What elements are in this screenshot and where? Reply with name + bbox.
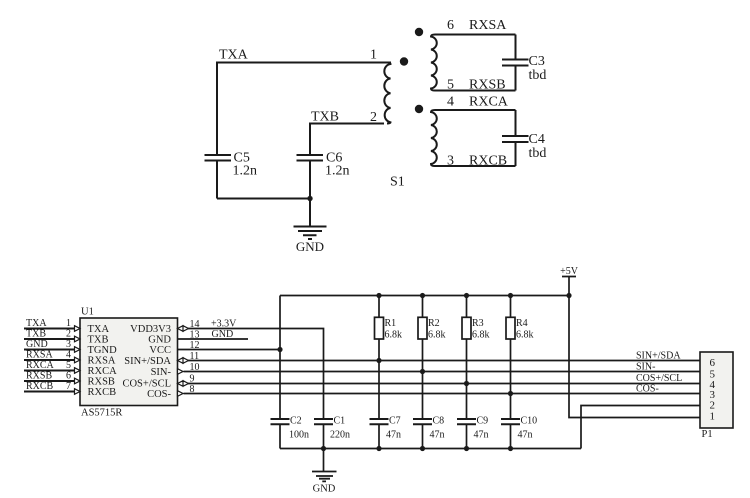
label C7 (389, 416, 401, 427)
junction dot R3/COS+/SCL (464, 381, 469, 386)
svg-text:COS-: COS- (636, 384, 659, 395)
svg-text:1: 1 (370, 48, 377, 63)
value tbd (C4) (529, 146, 547, 161)
value 220n (330, 430, 350, 441)
wire TXA horizontal + vertical to C5 (217, 63, 391, 156)
svg-text:tbd: tbd (529, 68, 547, 83)
resistor R2 vertical wires (422, 296, 424, 420)
svg-text:6.8k: 6.8k (472, 330, 490, 341)
wire GND bottom bus (280, 448, 581, 450)
resistor R3 (462, 317, 471, 339)
svg-text:SIN+/SDA: SIN+/SDA (124, 356, 171, 367)
pin arrow U1 pin 2 (75, 336, 81, 342)
pin number 6 (66, 371, 71, 382)
junction dot R1/SIN+/SDA (376, 358, 381, 363)
junction dot +5V (566, 293, 571, 298)
wire GND symbol stem (bottom) (323, 449, 325, 472)
resistor R4 vertical wires (510, 296, 512, 420)
svg-text:TXA: TXA (88, 324, 110, 335)
transformer S1 secondary winding RXSA/RXSB (431, 35, 516, 91)
pin number 12 (190, 340, 200, 351)
svg-text:C2: C2 (290, 416, 302, 427)
value 6.8k (R1) (385, 330, 403, 341)
value 6.8k (R2) (428, 330, 446, 341)
U1 internal pin name TXA (88, 324, 110, 335)
U1 internal pin name SIN+/SDA (124, 356, 171, 367)
capacitor C2 (271, 419, 290, 424)
net label GND (pin 13) (212, 329, 234, 340)
label C5 (234, 151, 250, 166)
wire COS+/SCL (U1 pin 9 to P1 pin 4) (184, 383, 701, 385)
svg-text:GND: GND (313, 484, 336, 495)
pin arrow U1 pin 11 (bidirectional) (178, 358, 189, 364)
value 100n (289, 430, 309, 441)
wire C2 bottom stem (279, 424, 281, 448)
svg-text:6: 6 (710, 357, 716, 369)
label C2 (290, 416, 302, 427)
svg-text:C10: C10 (521, 416, 538, 427)
node TXA label (219, 48, 249, 63)
pin arrow U1 pin 5 (75, 368, 81, 374)
pin arrow U1 pin 7 (75, 389, 81, 395)
pin arrow U1 pin 4 (75, 357, 81, 363)
wire P1 pin 2 to GND bus (581, 406, 700, 449)
junction dot bottom bus C8 (420, 446, 425, 451)
wire RXCB stub (U1 pin 7) (24, 391, 75, 393)
svg-text:U1: U1 (81, 307, 94, 318)
ground symbol (top section) (294, 227, 327, 240)
pin 6 label (447, 18, 454, 33)
pin number 1 (66, 318, 71, 329)
junction dot R2/SIN- (420, 369, 425, 374)
node TXB label (311, 110, 339, 125)
svg-text:VCC: VCC (149, 345, 171, 356)
svg-text:47n: 47n (386, 430, 401, 441)
svg-text:TGND: TGND (88, 345, 118, 356)
U1 internal pin name GND (148, 335, 171, 346)
label C10 (521, 416, 538, 427)
svg-text:COS-: COS- (147, 389, 171, 400)
pin 3 label (447, 154, 454, 169)
label GND (top section) (296, 239, 324, 254)
capacitor C3 (502, 60, 529, 66)
pin arrow U1 pin 9 (bidirectional) (178, 381, 189, 387)
junction dot top bus R3 (464, 293, 469, 298)
label C3 (529, 54, 545, 69)
wire C8 bottom stem (422, 424, 424, 448)
svg-text:TXB: TXB (26, 329, 46, 340)
value tbd (C3) (529, 68, 547, 83)
capacitor C6 (297, 155, 324, 199)
label R1 (385, 318, 397, 329)
pin arrow U1 pin 1 (75, 326, 81, 332)
svg-text:220n: 220n (330, 430, 350, 441)
wire C2 branch (top bus to C2) (279, 296, 281, 420)
net label SIN- (636, 362, 655, 373)
svg-text:S1: S1 (390, 175, 405, 190)
node RXCB label (469, 154, 507, 169)
label S1 (390, 175, 405, 190)
pin number 5 (66, 360, 71, 371)
pin number 2 (66, 329, 71, 340)
svg-text:TXB: TXB (311, 110, 339, 125)
resistor R4 (506, 317, 515, 339)
wire TXB horizontal + vertical to C6 (310, 124, 384, 156)
node RXCA label (U1 pin 5) (26, 360, 55, 371)
svg-text:6.8k: 6.8k (516, 330, 534, 341)
junction dot bottom bus C9 (464, 446, 469, 451)
svg-text:RXCB: RXCB (469, 154, 507, 169)
pin number 8 (190, 384, 195, 395)
pin arrow U1 pin 8 (178, 391, 184, 397)
svg-text:5: 5 (447, 78, 454, 93)
svg-text:SIN-: SIN- (151, 367, 172, 378)
U1 internal pin name RXCB (88, 387, 117, 398)
svg-text:RXSA: RXSA (88, 356, 116, 367)
wire secondary 2 right side (515, 110, 517, 166)
value 47n (C7) (386, 430, 401, 441)
U1 internal pin name VDD3V3 (130, 324, 171, 335)
pin number 4 (66, 350, 71, 361)
svg-text:GND: GND (26, 339, 48, 350)
junction dot bottom bus C7 (376, 446, 381, 451)
junction dot C6/ground (307, 196, 312, 201)
polarity dot primary (400, 57, 408, 65)
U1 internal pin name TGND (88, 345, 118, 356)
pin 4 label (447, 95, 454, 110)
pin number 13 (190, 330, 200, 341)
pin number 3 (66, 339, 71, 350)
svg-text:4: 4 (66, 350, 71, 361)
U1 internal pin name COS+/SCL (122, 379, 171, 390)
svg-text:3: 3 (447, 154, 454, 169)
capacitor C5 (205, 155, 232, 199)
wire +5V to P1 pin 1 (569, 296, 700, 418)
svg-text:6.8k: 6.8k (428, 330, 446, 341)
U1 internal pin name SIN- (151, 367, 172, 378)
svg-text:COS+/SCL: COS+/SCL (122, 379, 171, 390)
polarity dot secondary 2 (415, 105, 423, 113)
pin number 14 (190, 319, 200, 330)
svg-text:GND: GND (148, 335, 171, 346)
wire TXA stub (U1 pin 1) (24, 328, 75, 330)
resistor R1 vertical wires (378, 296, 380, 420)
pin number 11 (190, 351, 200, 362)
svg-text:R4: R4 (516, 318, 528, 329)
svg-text:1.2n: 1.2n (325, 164, 350, 179)
pin number 2 (P1) (710, 400, 716, 412)
junction dot VCC/C2 (277, 347, 282, 352)
node TXB label (U1 pin 2) (26, 329, 46, 340)
pin 1 label (primary top) (370, 48, 377, 63)
svg-text:47n: 47n (430, 430, 445, 441)
value 1.2n (C5) (233, 164, 258, 179)
node RXCB label (U1 pin 7) (26, 381, 54, 392)
svg-text:SIN-: SIN- (636, 362, 655, 373)
svg-text:C4: C4 (529, 132, 545, 147)
svg-text:C1: C1 (334, 416, 346, 427)
svg-text:RXCA: RXCA (469, 95, 509, 110)
label C4 (529, 132, 545, 147)
label AS5715R (81, 408, 122, 419)
wire SIN- (U1 pin 10 to P1 pin 5) (184, 371, 701, 373)
svg-text:COS+/SCL: COS+/SCL (636, 373, 682, 384)
svg-text:RXSB: RXSB (26, 371, 52, 382)
svg-text:RXCB: RXCB (88, 387, 117, 398)
wire C10 bottom stem (510, 424, 512, 448)
svg-text:47n: 47n (518, 430, 533, 441)
svg-text:R3: R3 (472, 318, 484, 329)
wire +5V top bus (280, 295, 569, 297)
node RXCA label (469, 95, 509, 110)
wire RXSB stub (U1 pin 6) (24, 380, 75, 382)
node GND label (U1 pin 3) (26, 339, 48, 350)
polarity dot secondary 1 (415, 28, 423, 36)
wire SIN+/SDA (U1 pin 11 to P1 pin 6) (184, 360, 701, 362)
svg-text:47n: 47n (474, 430, 489, 441)
U1 internal pin name VCC (149, 345, 171, 356)
value 47n (C8) (430, 430, 445, 441)
svg-text:1: 1 (66, 318, 71, 329)
svg-text:C7: C7 (389, 416, 401, 427)
pin number 10 (190, 362, 200, 373)
pin number 5 (P1) (710, 369, 716, 381)
U1 internal pin name RXSB (88, 377, 115, 388)
svg-text:TXB: TXB (88, 335, 109, 346)
label R3 (472, 318, 484, 329)
pin number 9 (190, 374, 195, 385)
svg-text:GND: GND (296, 239, 324, 254)
junction dot top bus R2 (420, 293, 425, 298)
wire bottom of C5/C6 to ground (217, 199, 310, 227)
svg-text:SIN+/SDA: SIN+/SDA (636, 351, 681, 362)
wire C9 bottom stem (466, 424, 468, 448)
svg-text:100n: 100n (289, 430, 309, 441)
capacitor C8 (413, 419, 432, 424)
U1 internal pin name TXB (88, 335, 109, 346)
label R2 (428, 318, 440, 329)
pin number 6 (P1) (710, 357, 716, 369)
svg-text:6.8k: 6.8k (385, 330, 403, 341)
pin arrow U1 pin 14 (bidirectional) (178, 326, 189, 332)
capacitor C10 (501, 419, 520, 424)
svg-text:VDD3V3: VDD3V3 (130, 324, 171, 335)
svg-text:4: 4 (447, 95, 454, 110)
resistor R3 vertical wires (466, 296, 468, 420)
svg-text:R2: R2 (428, 318, 440, 329)
capacitor C7 (370, 419, 389, 424)
pin arrow U1 pin 6 (75, 378, 81, 384)
capacitor C9 (457, 419, 476, 424)
label C9 (477, 416, 489, 427)
svg-text:2: 2 (66, 329, 71, 340)
label P1 (702, 429, 713, 440)
value 6.8k (R3) (472, 330, 490, 341)
value 1.2n (C6) (325, 164, 350, 179)
svg-text:2: 2 (370, 110, 377, 125)
wire U1 pin 13 GND net (178, 338, 249, 340)
net label COS+/SCL (636, 373, 682, 384)
junction dot R4/COS- (508, 391, 513, 396)
pin number 1 (P1) (710, 411, 716, 423)
net label COS- (636, 384, 659, 395)
junction dot top bus R4 (508, 293, 513, 298)
wire U1 pin 12 VCC to C2 line (178, 349, 281, 351)
value 47n (C10) (518, 430, 533, 441)
svg-text:+5V: +5V (560, 266, 579, 277)
pin number 3 (P1) (710, 389, 716, 401)
node RXSA label (U1 pin 4) (26, 350, 53, 361)
resistor R1 (375, 317, 384, 339)
svg-text:1: 1 (710, 411, 716, 423)
wire C7 bottom stem (378, 424, 380, 448)
junction dot top bus R1 (376, 293, 381, 298)
resistor R2 (418, 317, 427, 339)
svg-text:R1: R1 (385, 318, 397, 329)
svg-text:P1: P1 (702, 429, 713, 440)
label C1 (334, 416, 346, 427)
capacitor C4 (502, 136, 529, 142)
U1 internal pin name RXSA (88, 356, 116, 367)
wire U1 pin 14 +3.3V net to C1 (184, 329, 324, 420)
pin arrow U1 pin 10 (178, 369, 184, 375)
wire RXCA stub (U1 pin 5) (24, 370, 75, 372)
label C6 (326, 151, 342, 166)
label GND (bottom section) (313, 484, 336, 495)
svg-text:RXCB: RXCB (26, 381, 54, 392)
junction dot bottom bus C1/GND (321, 446, 326, 451)
U1 internal pin name RXCA (88, 366, 118, 377)
svg-text:5: 5 (66, 360, 71, 371)
svg-text:1.2n: 1.2n (233, 164, 258, 179)
pin arrow U1 pin 3 (75, 347, 81, 353)
svg-text:RXSA: RXSA (469, 18, 507, 33)
svg-text:AS5715R: AS5715R (81, 408, 122, 419)
node RXSB label (469, 78, 506, 93)
label C8 (433, 416, 445, 427)
power symbol +5V (562, 277, 576, 296)
svg-text:6: 6 (447, 18, 454, 33)
svg-text:RXSA: RXSA (26, 350, 53, 361)
svg-text:tbd: tbd (529, 146, 547, 161)
svg-text:7: 7 (66, 381, 71, 392)
op-amp U1 chip body AS5715R (80, 318, 178, 406)
svg-text:6: 6 (66, 371, 71, 382)
pin number 4 (P1) (710, 379, 716, 391)
transformer S1 primary winding (384, 63, 390, 124)
pin 5 label (447, 78, 454, 93)
label U1 (81, 307, 94, 318)
transformer S1 secondary winding RXCA/RXCB (431, 110, 516, 166)
wire GND stub (U1 pin 3) (24, 349, 75, 351)
ground symbol (bottom section) (312, 472, 337, 482)
value 47n (C9) (474, 430, 489, 441)
node RXSB label (U1 pin 6) (26, 371, 52, 382)
net label +5V (560, 266, 579, 277)
node RXSA label (469, 18, 507, 33)
node TXA label (U1 pin 1) (26, 318, 47, 329)
net label +3.3V (211, 319, 237, 330)
svg-text:RXSB: RXSB (469, 78, 506, 93)
svg-text:TXA: TXA (219, 48, 249, 63)
wire RXSA stub (U1 pin 4) (24, 359, 75, 361)
svg-text:RXCA: RXCA (88, 366, 118, 377)
svg-text:TXA: TXA (26, 318, 47, 329)
svg-text:C3: C3 (529, 54, 545, 69)
net label SIN+/SDA (636, 351, 681, 362)
capacitor C1 (314, 419, 333, 424)
connector P1 body (700, 352, 733, 428)
svg-text:RXCA: RXCA (26, 360, 55, 371)
pin number 7 (66, 381, 71, 392)
wire secondary 1 right side (515, 35, 517, 91)
wire C1 bottom stem (323, 424, 325, 448)
wire TXB stub (U1 pin 2) (24, 338, 75, 340)
svg-text:C8: C8 (433, 416, 445, 427)
svg-text:3: 3 (66, 339, 71, 350)
pin 2 label (primary bottom) (370, 110, 377, 125)
junction dot bottom bus C10 (508, 446, 513, 451)
U1 internal pin name COS- (147, 389, 171, 400)
label R4 (516, 318, 528, 329)
svg-text:RXSB: RXSB (88, 377, 115, 388)
svg-text:C9: C9 (477, 416, 489, 427)
value 6.8k (R4) (516, 330, 534, 341)
wire COS- (U1 pin 8 to P1 pin 3) (184, 393, 701, 395)
